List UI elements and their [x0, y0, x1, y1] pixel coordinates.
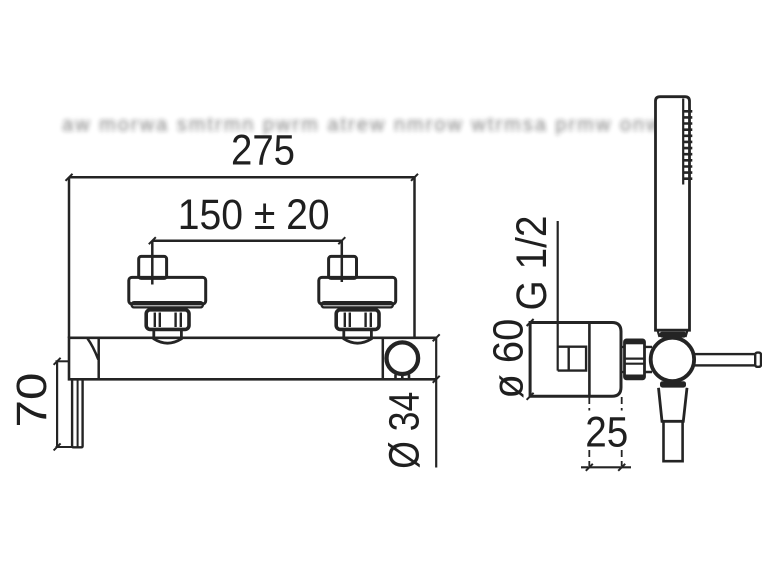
- svg-text:Ø 34: Ø 34: [381, 392, 429, 469]
- extension top 70: [56, 360, 70, 362]
- tick top dia60: [527, 319, 534, 326]
- tick left 25: [586, 464, 593, 471]
- lever joint diagonal: [88, 339, 99, 360]
- bar left cap divider: [97, 338, 100, 380]
- holder ball joint: [651, 338, 694, 381]
- spray nozzle ticks: [683, 111, 692, 178]
- left union nut: [146, 310, 189, 330]
- holder cup top: [660, 332, 687, 338]
- hand shower collar sides: [658, 330, 688, 337]
- flange-nut connector lines: [621, 347, 625, 372]
- svg-text:aw morwa smtrmn pwrm atrew nmr: aw morwa smtrmn pwrm atrew nmrow wtrmsa …: [62, 114, 663, 136]
- tick bottom 70: [54, 443, 61, 450]
- extension bottom 70: [56, 446, 73, 448]
- knurl ticks under circle: [396, 375, 410, 379]
- svg-text:ø 60: ø 60: [485, 319, 533, 399]
- extension dashed right 25: [621, 397, 623, 466]
- extension dashed left 25: [588, 397, 590, 466]
- extension line right 150: [341, 241, 344, 282]
- shower hose: [664, 421, 683, 461]
- cartridge circle: [387, 342, 419, 374]
- dimension 25 line: [581, 466, 631, 468]
- G 1/2 leader line: [557, 221, 559, 371]
- right escutcheon body: [319, 277, 396, 304]
- side nut top band: [625, 340, 645, 344]
- dimension dia34 line: [435, 338, 437, 468]
- tick right 25: [618, 464, 625, 471]
- tick left 150: [149, 237, 156, 244]
- right tailpiece arc: [344, 329, 372, 343]
- left nut facet lines: [155, 313, 181, 328]
- side escutcheon flange: [530, 323, 621, 397]
- extension line left 275: [68, 177, 71, 338]
- lever handle tip: [755, 353, 761, 367]
- lever handle mid line: [77, 379, 79, 446]
- watermark band: [62, 114, 663, 136]
- tick top 70: [54, 358, 61, 365]
- tick bottom dia60: [527, 393, 534, 400]
- tick right 275: [411, 174, 418, 181]
- right union nut: [336, 310, 379, 330]
- holder cup bottom: [660, 381, 686, 387]
- left escutcheon lip: [132, 302, 204, 307]
- bar right cap divider: [382, 338, 385, 380]
- lever handle side view bar: [692, 354, 757, 365]
- stub inner line: [568, 347, 570, 371]
- tick top dia34: [433, 334, 440, 341]
- svg-text:25: 25: [585, 409, 628, 457]
- svg-text:70: 70: [8, 373, 56, 428]
- left escutcheon body: [129, 277, 206, 304]
- side nut bottom band: [625, 375, 645, 379]
- svg-text:275: 275: [231, 127, 295, 175]
- right escutcheon lip: [322, 302, 394, 307]
- extension line right 275: [413, 177, 416, 338]
- dimension 70 line: [56, 361, 58, 447]
- dimension 150 line: [152, 239, 341, 242]
- spray face inner line: [682, 99, 684, 185]
- left union inlet square: [139, 256, 167, 278]
- svg-text:G 1/2: G 1/2: [508, 216, 556, 311]
- side nut middle lines: [625, 359, 644, 364]
- outlet cone: [659, 388, 688, 422]
- flange step line: [588, 323, 591, 397]
- tick right 150: [338, 237, 345, 244]
- right union inlet square: [329, 256, 357, 278]
- G 1/2 stub box: [558, 347, 586, 371]
- side union nut: [625, 340, 645, 379]
- dimension 275 line: [69, 176, 415, 179]
- mixer bar body: [69, 338, 437, 380]
- extension line left 150: [151, 241, 154, 285]
- tick bottom dia34: [433, 376, 440, 383]
- left tailpiece arc: [154, 329, 182, 343]
- lever handle left edge: [72, 379, 83, 447]
- hand shower body: [656, 97, 690, 331]
- svg-text:150 ± 20: 150 ± 20: [178, 191, 330, 239]
- nut-ball neck: [645, 347, 653, 372]
- tick left 275: [66, 174, 73, 181]
- right nut facet lines: [345, 313, 371, 328]
